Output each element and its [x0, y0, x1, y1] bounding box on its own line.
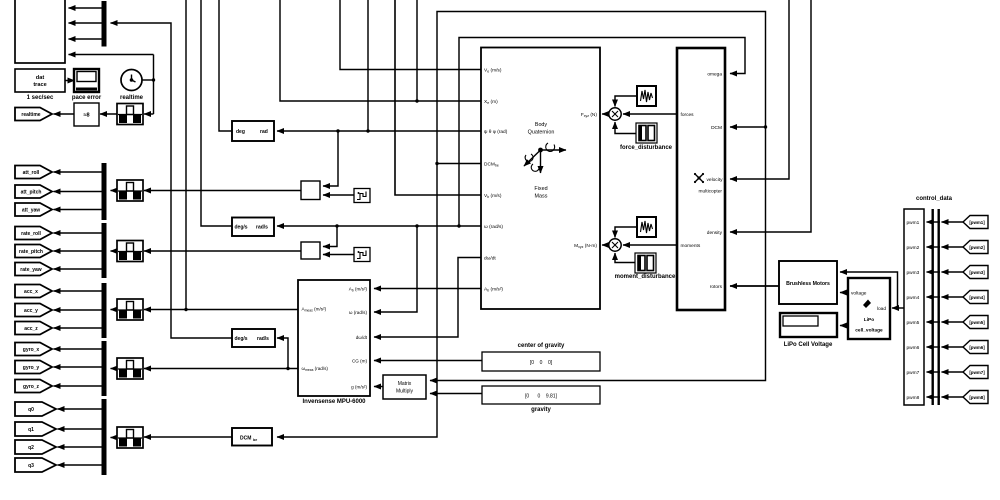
svg-text:moments: moments [681, 243, 701, 249]
svg-text:deg: deg [236, 129, 245, 135]
svg-text:ω (rad/s): ω (rad/s) [484, 224, 503, 230]
svg-text:cell_voltage: cell_voltage [855, 328, 883, 334]
svg-text:q0: q0 [28, 407, 34, 413]
svg-text:control_data: control_data [916, 196, 953, 202]
svg-text:dat: dat [36, 75, 45, 81]
svg-text:[pwm1]: [pwm1] [969, 220, 985, 225]
svg-text:ω (rad/s): ω (rad/s) [349, 310, 368, 315]
svg-text:q2: q2 [28, 445, 34, 451]
svg-text:[pwm6]: [pwm6] [969, 345, 985, 350]
svg-text:att_roll: att_roll [23, 170, 40, 176]
svg-text:voltage: voltage [851, 291, 867, 297]
svg-text:[pwm8]: [pwm8] [969, 395, 985, 400]
svg-text:gravity: gravity [531, 407, 551, 413]
svg-text:pace error: pace error [72, 95, 102, 101]
svg-text:rate_roll: rate_roll [21, 231, 41, 237]
svg-text:[pwm7]: [pwm7] [969, 370, 985, 375]
svg-text:Matrix: Matrix [398, 381, 412, 387]
svg-text:pwm5: pwm5 [907, 320, 920, 326]
svg-text:att_yaw: att_yaw [22, 208, 40, 214]
svg-text:rad: rad [260, 129, 268, 135]
svg-text:DCM: DCM [711, 125, 722, 131]
svg-text:ψ θ φ (rad): ψ θ φ (rad) [484, 129, 508, 135]
svg-text:velocity: velocity [707, 177, 724, 183]
svg-text:deg/s: deg/s [235, 336, 248, 342]
svg-text:Fixed: Fixed [534, 186, 547, 192]
svg-text:rad/s: rad/s [257, 336, 269, 342]
svg-text:load: load [877, 306, 886, 312]
svg-text:[0 0 9.81]: [0 0 9.81] [525, 394, 558, 400]
svg-text:realtime: realtime [120, 95, 144, 101]
svg-text:att_pitch: att_pitch [21, 190, 42, 196]
svg-text:Body: Body [535, 122, 548, 128]
svg-text:omega: omega [707, 73, 722, 78]
svg-text:pwm3: pwm3 [907, 270, 920, 276]
svg-text:q1: q1 [28, 427, 34, 433]
svg-text:moment_disturbance: moment_disturbance [615, 274, 676, 280]
svg-text:[pwm2]: [pwm2] [969, 245, 985, 250]
svg-text:≈8: ≈8 [83, 113, 89, 119]
svg-text:acc_y: acc_y [24, 308, 38, 314]
svg-text:rad/s: rad/s [256, 225, 268, 231]
svg-text:pwm6: pwm6 [907, 345, 920, 351]
svg-text:CG (m): CG (m) [352, 359, 368, 364]
svg-text:Vb (m/s): Vb (m/s) [484, 193, 502, 199]
svg-text:dω/dt: dω/dt [484, 256, 496, 262]
svg-text:Fxyz (N): Fxyz (N) [581, 112, 598, 118]
svg-text:Invensense MPU-6000: Invensense MPU-6000 [302, 399, 366, 405]
svg-text:center of gravity: center of gravity [518, 343, 565, 349]
svg-text:Mass: Mass [535, 194, 548, 200]
svg-text:gyro_x: gyro_x [23, 347, 40, 353]
svg-text:rate_pitch: rate_pitch [19, 249, 43, 255]
svg-text:Ve (m/s): Ve (m/s) [484, 68, 502, 74]
svg-text:Ab (m/s²): Ab (m/s²) [484, 287, 503, 293]
svg-text:acc_x: acc_x [24, 289, 38, 295]
svg-text:rate_yaw: rate_yaw [20, 267, 42, 273]
svg-text:trace: trace [33, 82, 46, 88]
svg-text:Xe (m): Xe (m) [484, 99, 498, 105]
svg-text:deg/s: deg/s [235, 225, 248, 231]
svg-text:[pwm4]: [pwm4] [969, 295, 985, 300]
svg-text:[pwm5]: [pwm5] [969, 320, 985, 325]
svg-text:1 sec/sec: 1 sec/sec [27, 95, 54, 101]
svg-text:pwm4: pwm4 [907, 295, 920, 301]
svg-text:[0 0 0]: [0 0 0] [530, 360, 553, 366]
svg-text:DCM: DCM [240, 436, 251, 442]
svg-text:Multiply: Multiply [396, 389, 413, 395]
svg-text:force_disturbance: force_disturbance [620, 145, 673, 151]
svg-text:be: be [253, 438, 257, 442]
svg-text:gyro_z: gyro_z [23, 384, 40, 390]
svg-text:pwm1: pwm1 [907, 220, 920, 226]
svg-text:Quaternion: Quaternion [528, 130, 555, 136]
svg-text:q3: q3 [28, 463, 34, 469]
svg-text:g (m/s²): g (m/s²) [351, 385, 367, 390]
svg-text:[pwm3]: [pwm3] [969, 270, 985, 275]
svg-text:pwm7: pwm7 [907, 370, 920, 376]
svg-text:pwm8: pwm8 [907, 395, 920, 401]
svg-text:rotors: rotors [710, 284, 723, 290]
svg-text:gyro_y: gyro_y [23, 365, 40, 371]
svg-text:dω/dt: dω/dt [356, 335, 368, 340]
svg-text:density: density [707, 230, 723, 236]
svg-text:acc_z: acc_z [24, 326, 38, 332]
svg-text:realtime: realtime [21, 112, 40, 118]
svg-text:forces: forces [681, 112, 695, 118]
svg-text:LiPo: LiPo [864, 317, 874, 323]
svg-text:Mxyz (N-m): Mxyz (N-m) [574, 243, 597, 249]
svg-text:LiPo Cell Voltage: LiPo Cell Voltage [784, 342, 833, 348]
svg-text:Brushless Motors: Brushless Motors [786, 281, 830, 287]
svg-text:pwm2: pwm2 [907, 245, 920, 251]
svg-text:multicopter: multicopter [699, 189, 723, 195]
